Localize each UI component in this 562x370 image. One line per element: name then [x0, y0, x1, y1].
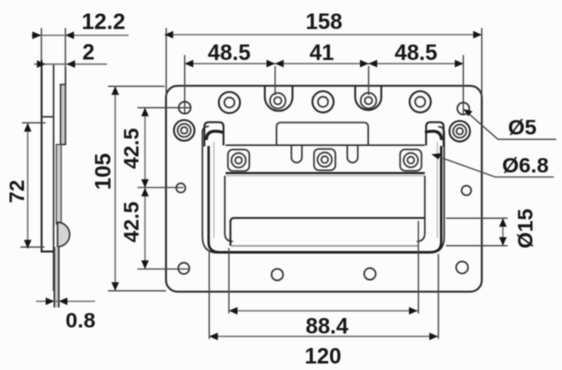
side view dish face line [53, 64, 55, 291]
svg-text:120: 120 [305, 344, 342, 369]
top slot right rivet [361, 93, 377, 109]
side view recess top tick [42, 116, 54, 118]
svg-text:41: 41 [310, 40, 334, 65]
top slot left rivet [270, 93, 286, 109]
top rivet 1 [219, 92, 240, 113]
dimension 105 [90, 86, 166, 290]
handle arm highlight lines [214, 142, 437, 238]
dimension 88.4 [229, 221, 419, 339]
svg-text:42.5: 42.5 [121, 201, 144, 242]
top rivet middle [312, 91, 333, 112]
big pivot rivet right [449, 121, 470, 142]
band slot left [291, 145, 302, 162]
dimension 158 [165, 9, 482, 97]
handle U outer outline [209, 146, 442, 252]
side hole left [176, 183, 185, 192]
handle arm inner edges lower bends [225, 176, 425, 242]
svg-text:12.2: 12.2 [82, 9, 126, 34]
corner screw hole bottom-left [178, 263, 189, 274]
side hole right [462, 186, 472, 196]
bottom hole right [364, 268, 376, 280]
svg-text:72: 72 [6, 180, 29, 203]
handle right arm inner cap arc [425, 131, 441, 140]
svg-text:Ø5: Ø5 [508, 116, 537, 140]
corner screw hole top-left [179, 102, 191, 114]
band rivet left [228, 150, 249, 171]
spring cover band [226, 145, 425, 176]
handle right pivot cap [426, 122, 444, 146]
front view mounting plate [166, 86, 482, 292]
corner screw hole top-right [457, 103, 469, 115]
handle grip bar [230, 218, 424, 246]
side view lower gray band [56, 145, 61, 225]
svg-text:88.4: 88.4 [306, 314, 350, 339]
top slot left [265, 86, 293, 111]
svg-text:2: 2 [82, 40, 94, 65]
bottom hole left [272, 269, 284, 281]
big pivot rivet left [174, 120, 195, 141]
handle left pivot cap [204, 122, 223, 146]
dimension 2 [34, 40, 107, 68]
leader diameter 6.8 [432, 153, 554, 177]
band slot right [347, 145, 358, 162]
svg-text:0.8: 0.8 [66, 309, 96, 333]
dimension 12.2 [32, 9, 129, 68]
band rivet middle [314, 149, 335, 170]
leader diameter 5 [464, 109, 557, 140]
dimension 120 [209, 252, 438, 369]
svg-text:42.5: 42.5 [121, 128, 144, 169]
dimension chain 48.5 / 41 / 48.5 [185, 40, 464, 115]
side view recess depth bar [61, 68, 66, 145]
top rivet right [410, 91, 431, 112]
svg-text:158: 158 [306, 9, 343, 34]
dimension diameter 15 [446, 208, 538, 248]
recess dish outline [202, 126, 444, 253]
corner screw hole bottom-right [456, 261, 468, 273]
svg-text:48.5: 48.5 [208, 40, 251, 65]
band rivet right [400, 149, 421, 170]
handle left arm inner cap arc [206, 131, 223, 140]
side view flange front face line [42, 60, 55, 252]
svg-text:Ø6.8: Ø6.8 [502, 154, 549, 178]
svg-text:48.5: 48.5 [395, 40, 438, 65]
dimension 72 [6, 123, 45, 249]
side view spring housing bump [58, 222, 70, 246]
svg-text:Ø15: Ø15 [515, 208, 538, 248]
spring cover tab [277, 123, 369, 146]
top slot right [355, 86, 381, 110]
dimension 42.5 upper [121, 108, 191, 269]
dimension 0.8 [36, 298, 95, 333]
side view bottom tail [54, 247, 59, 308]
svg-text:105: 105 [90, 153, 115, 190]
